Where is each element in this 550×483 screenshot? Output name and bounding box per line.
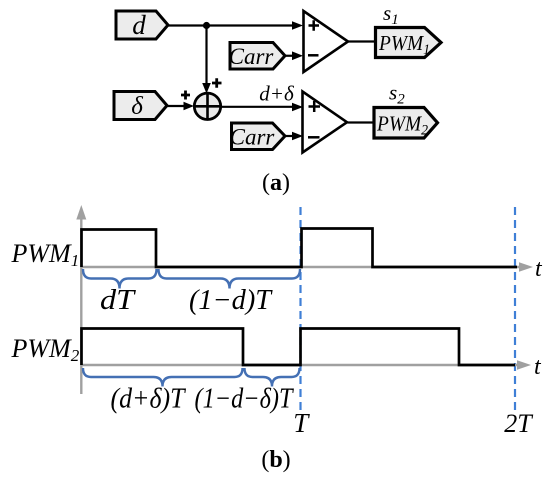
svg-text:2T: 2T xyxy=(504,409,533,438)
input tag d xyxy=(116,10,168,40)
plus sign above summing node xyxy=(212,78,222,88)
wire summing node to comparator U2, node d+delta xyxy=(221,82,303,112)
svg-text:Carr: Carr xyxy=(230,125,276,150)
svg-text:PWM2: PWM2 xyxy=(11,334,80,365)
summing junction xyxy=(194,93,220,119)
wire delta to summing node xyxy=(167,102,194,111)
comparator U1 xyxy=(304,11,349,72)
svg-text:d: d xyxy=(132,10,146,40)
wire d to comparator U1 plus input xyxy=(168,21,303,30)
svg-text:(b): (b) xyxy=(261,447,290,473)
brace (d+delta)T xyxy=(83,368,243,387)
svg-text:δ: δ xyxy=(131,93,143,120)
svg-text:(1−d−δ)T: (1−d−δ)T xyxy=(195,384,295,415)
svg-text:T: T xyxy=(293,408,310,438)
plus sign left of summing node xyxy=(181,91,190,100)
time axis vertical (gray) xyxy=(76,205,86,394)
wire junction down to summing node xyxy=(202,26,211,94)
svg-text:(a): (a) xyxy=(262,170,290,196)
wire U1 output to PWM1 tag xyxy=(348,40,376,42)
time axis 1 horizontal (gray) with arrow and t label xyxy=(81,256,543,282)
svg-text:PWM1: PWM1 xyxy=(11,239,80,270)
svg-text:Carr: Carr xyxy=(229,44,275,69)
waveform PWM1 xyxy=(82,229,518,268)
carrier tag Carr (lower) xyxy=(230,123,285,150)
dashed marker line at T (blue) xyxy=(299,207,301,410)
svg-text:d+δ: d+δ xyxy=(259,82,295,106)
time axis 2 horizontal (gray) with arrow and t label xyxy=(81,354,542,380)
svg-text:PWM1: PWM1 xyxy=(378,31,430,58)
svg-text:(1−d)T: (1−d)T xyxy=(189,285,273,316)
input tag delta xyxy=(114,92,167,121)
output tag PWM1 xyxy=(376,28,442,59)
svg-text:dT: dT xyxy=(100,285,137,316)
brace dT xyxy=(83,269,157,289)
svg-text:(d+δ)T: (d+δ)T xyxy=(111,384,187,415)
output tag PWM2 xyxy=(374,108,438,139)
brace (1-d)T xyxy=(159,269,301,289)
waveform PWM2 xyxy=(82,329,516,366)
comparator U2 xyxy=(303,92,348,153)
dashed marker line at 2T (blue) xyxy=(514,207,516,410)
junction node on d wire xyxy=(203,22,210,29)
wire U2 output to PWM2 tag xyxy=(348,121,376,123)
wire Carr to comparator U1 minus input xyxy=(285,51,303,60)
brace (1-d-delta)T xyxy=(245,368,300,387)
carrier tag Carr (upper) xyxy=(229,43,285,70)
wire Carr to comparator U2 minus input xyxy=(285,132,303,141)
svg-text:PWM2: PWM2 xyxy=(376,112,428,139)
